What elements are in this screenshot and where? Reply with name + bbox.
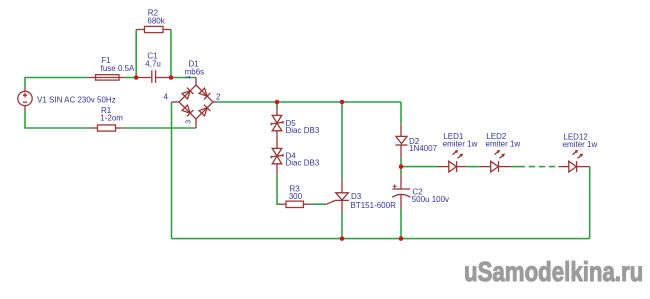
wire R3 to D3 gate — [311, 203, 327, 205]
resistor R1 — [90, 125, 124, 131]
LED12 — [558, 150, 589, 172]
svg-text:uSamodelkina.ru: uSamodelkina.ru — [464, 257, 643, 288]
diac D4 — [271, 148, 283, 175]
wire D2 column top — [400, 102, 402, 124]
node LED branch junction — [399, 164, 404, 169]
svg-text:fuse 0.5A: fuse 0.5A — [101, 64, 135, 73]
wire C1 right node to bridge top pin — [171, 77, 196, 79]
bridge rectifier D1 — [172, 78, 217, 129]
wire bottom rail — [172, 238, 590, 240]
wire bridge left pin down to bottom rail — [171, 102, 173, 239]
wire R2 right riser — [170, 30, 172, 78]
svg-text:300: 300 — [289, 192, 303, 201]
svg-text:680k: 680k — [147, 16, 165, 25]
wire R2 left riser — [135, 30, 137, 78]
voltage source V1 — [18, 87, 32, 110]
node C1 right junction — [169, 75, 174, 80]
diode TR of bridge — [199, 88, 207, 96]
wire R1 to bridge bottom pin — [124, 127, 196, 129]
wire LED2 out solid — [511, 166, 525, 168]
svg-text:1-2om: 1-2om — [100, 114, 123, 123]
svg-text:1N4007: 1N4007 — [409, 144, 438, 153]
wire LED12 cathode down right side — [589, 167, 591, 239]
capacitor C1 — [136, 70, 171, 83]
node D3 cathode rail junction — [340, 236, 345, 241]
wire D3 cathode to bottom rail — [341, 212, 343, 239]
wire D4 down to R3 — [277, 175, 280, 204]
thyristor D3 — [327, 179, 349, 212]
diode D2 — [396, 124, 408, 157]
wire node down to D3 anode — [341, 102, 343, 179]
svg-text:V1 SIN AC 230v 50Hz: V1 SIN AC 230v 50Hz — [37, 95, 116, 104]
svg-text:Diac DB3: Diac DB3 — [286, 126, 320, 135]
svg-text:emiter 1w: emiter 1w — [486, 139, 521, 148]
node D3 branch junction — [340, 100, 345, 105]
svg-text:Diac DB3: Diac DB3 — [286, 158, 320, 167]
diode TL of bridge — [182, 91, 190, 99]
svg-text:3: 3 — [186, 120, 193, 124]
diode BL of bridge — [182, 105, 190, 113]
svg-text:emiter 1w: emiter 1w — [563, 140, 598, 149]
wire node to D5 — [276, 102, 278, 108]
diode BR of bridge — [199, 108, 207, 116]
wire LED node to LED1 — [402, 166, 437, 168]
diac D5 — [271, 107, 283, 149]
wire C2 bottom to rail — [400, 209, 402, 239]
wire fuse to C1 left node — [124, 77, 136, 79]
node C2 rail junction — [399, 236, 404, 241]
resistor R2 — [136, 26, 171, 32]
svg-text:D3: D3 — [351, 192, 362, 201]
LED1 — [437, 150, 466, 172]
svg-text:4: 4 — [164, 93, 169, 102]
fuse F1 — [88, 75, 124, 80]
wire D2 cathode to LED node — [400, 158, 402, 176]
svg-text:500u 100v: 500u 100v — [412, 195, 449, 204]
wire V1 bottom to R1 — [25, 110, 90, 128]
svg-text:BT151-600R: BT151-600R — [351, 201, 397, 210]
wire bridge right pin to D2 column — [217, 101, 402, 103]
node D5 branch junction — [275, 100, 280, 105]
wire LED1 to LED2 — [466, 166, 479, 168]
svg-text:2: 2 — [216, 93, 221, 102]
resistor R3 — [279, 201, 311, 207]
wire dashed LED2 to LED12 — [525, 166, 558, 168]
node C1 left junction — [134, 75, 139, 80]
svg-text:4,7u: 4,7u — [145, 60, 161, 69]
svg-text:emiter 1w: emiter 1w — [443, 139, 478, 148]
capacitor C2 — [392, 175, 410, 209]
wire top rail from V1 to fuse — [25, 78, 88, 88]
svg-text:1: 1 — [185, 75, 192, 79]
LED2 — [479, 150, 511, 172]
